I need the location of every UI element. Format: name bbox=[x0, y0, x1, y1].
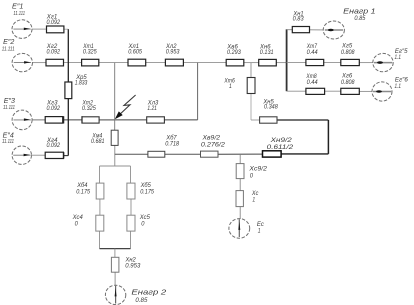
EMF source E3 bbox=[12, 110, 32, 130]
wire mid right bbox=[130, 199, 132, 215]
label Xг2 bbox=[46, 44, 61, 56]
EMF source Eнагр1 bbox=[323, 21, 344, 39]
svg-text:0.83: 0.83 bbox=[293, 16, 305, 22]
resistor Xв6 bbox=[226, 59, 244, 66]
svg-text:0.611/2: 0.611/2 bbox=[267, 145, 294, 151]
wire line y120 a bbox=[251, 119, 260, 121]
wire row3 e bbox=[164, 119, 197, 121]
label Xт8 bbox=[306, 74, 319, 86]
svg-text:1.833: 1.833 bbox=[75, 81, 88, 87]
wire lower line c bbox=[218, 153, 263, 155]
resistor Xн6 bbox=[259, 59, 277, 66]
label Xн9/2 bbox=[267, 138, 294, 151]
resistor Xг6 bbox=[341, 88, 360, 94]
resistor Xб5 bbox=[127, 183, 135, 199]
svg-text:Xв9/2: Xв9/2 bbox=[201, 136, 220, 142]
EMF source Eг6 bbox=[372, 82, 392, 101]
wire riser to row2 bbox=[197, 63, 199, 120]
wire row4 b bbox=[64, 155, 69, 157]
wire row1 a bbox=[32, 28, 47, 30]
wire bus1 lower bbox=[67, 99, 69, 156]
svg-text:0.175: 0.175 bbox=[140, 189, 154, 195]
svg-text:0.85: 0.85 bbox=[135, 298, 148, 304]
resistor Xс4 bbox=[96, 215, 104, 231]
label Eг6 bbox=[395, 78, 409, 90]
svg-text:Eс: Eс bbox=[257, 222, 264, 228]
svg-text:11.111: 11.111 bbox=[3, 105, 15, 111]
wire line y120 b bbox=[277, 119, 328, 121]
label Xг1 bbox=[46, 14, 61, 25]
svg-text:0.348: 0.348 bbox=[264, 105, 278, 111]
label Eнагр1 bbox=[343, 6, 375, 22]
wire branch T6 top bbox=[250, 63, 252, 78]
label Xт6 bbox=[224, 78, 236, 90]
wire split top bbox=[100, 165, 131, 167]
resistor Xн5 bbox=[260, 117, 277, 123]
svg-text:0.092: 0.092 bbox=[47, 106, 61, 112]
label Xб5 bbox=[140, 183, 155, 195]
label Xт2 bbox=[82, 101, 97, 112]
label Xн5 bbox=[262, 99, 278, 110]
resistor Xн1 bbox=[292, 27, 309, 33]
wire row2r c bbox=[359, 62, 373, 64]
label Xб4 bbox=[76, 183, 90, 195]
wire row1r a bbox=[287, 29, 293, 31]
label Xв9/2 bbox=[201, 136, 226, 149]
svg-text:0.953: 0.953 bbox=[166, 50, 180, 56]
label Xм4 bbox=[91, 134, 105, 145]
resistor Xр5 bbox=[65, 82, 72, 99]
svg-text:0.953: 0.953 bbox=[125, 264, 141, 270]
resistor Xл2 bbox=[165, 59, 183, 66]
wire row1r b bbox=[310, 29, 324, 31]
wire row2 b bbox=[64, 62, 82, 64]
wire branch T6 bottom bbox=[250, 94, 252, 121]
svg-text:1.1: 1.1 bbox=[395, 55, 402, 61]
EMF source E2 bbox=[12, 53, 32, 71]
wire chain a bbox=[239, 154, 241, 163]
wire mid left bbox=[99, 199, 101, 215]
wire lower line d bbox=[281, 153, 328, 155]
svg-text:0.325: 0.325 bbox=[83, 50, 97, 56]
svg-text:0.85: 0.85 bbox=[354, 16, 366, 22]
wire row3r b bbox=[325, 90, 341, 92]
svg-text:Xс4: Xс4 bbox=[72, 215, 84, 221]
svg-text:0.092: 0.092 bbox=[47, 143, 61, 149]
wire row2 f bbox=[244, 62, 259, 64]
svg-text:0.44: 0.44 bbox=[307, 80, 319, 86]
label Eс bbox=[257, 222, 264, 235]
wire row2 g bbox=[276, 62, 286, 64]
svg-text:0.808: 0.808 bbox=[341, 80, 355, 86]
wire row3 d bbox=[115, 119, 147, 121]
wire split right bbox=[130, 166, 132, 183]
wire split left bbox=[99, 166, 101, 183]
resistor Xт8 bbox=[306, 88, 325, 94]
resistor Xг4 bbox=[45, 152, 63, 158]
wire join bottom bbox=[100, 248, 131, 250]
label Xл3 bbox=[147, 101, 159, 112]
wire row2r b bbox=[324, 62, 341, 64]
label Xн6 bbox=[259, 45, 274, 57]
wire row2r a bbox=[287, 62, 306, 64]
junction cap right of Xг3 bbox=[63, 116, 65, 123]
svg-text:E″1: E″1 bbox=[12, 4, 24, 11]
label Xв6 bbox=[226, 45, 241, 57]
EMF source Eс bbox=[229, 219, 250, 239]
svg-text:Xг5: Xг5 bbox=[341, 44, 353, 50]
svg-text:Eг″5: Eг″5 bbox=[395, 49, 408, 55]
wire drop to node K bbox=[114, 63, 116, 131]
EMF source E1 bbox=[12, 20, 32, 39]
EMF source Eг5 bbox=[373, 53, 393, 71]
wire row3r c bbox=[359, 90, 372, 92]
label Xн2 bbox=[125, 257, 141, 269]
resistor Xл1 bbox=[128, 59, 146, 66]
svg-text:0.175: 0.175 bbox=[76, 189, 90, 195]
label Xл2 bbox=[165, 44, 180, 56]
wire row3 c bbox=[99, 119, 115, 121]
wire stub to Xн2 bbox=[114, 249, 116, 258]
label Xл1 bbox=[128, 44, 143, 56]
svg-text:11.111: 11.111 bbox=[13, 11, 25, 17]
svg-text:Xб7: Xб7 bbox=[165, 135, 177, 141]
wire lower line b bbox=[165, 153, 201, 155]
wire right loop riser bbox=[327, 120, 329, 154]
svg-text:Eнагр 1: Eнагр 1 bbox=[343, 6, 375, 15]
svg-text:Xн9/2: Xн9/2 bbox=[269, 138, 292, 144]
label Eг5 bbox=[395, 49, 409, 61]
wire Xн2 to Eнагр2 bbox=[114, 272, 116, 285]
wire bus1 upper bbox=[67, 29, 69, 82]
resistor Xт1 bbox=[82, 59, 99, 66]
wire join right bbox=[130, 231, 132, 249]
svg-text:0.092: 0.092 bbox=[47, 20, 61, 26]
wire row2 d bbox=[146, 62, 166, 64]
resistor Xс bbox=[236, 191, 243, 207]
svg-text:0.293: 0.293 bbox=[227, 50, 241, 56]
wire row3 a bbox=[32, 119, 45, 121]
label Xб7 bbox=[165, 135, 179, 147]
resistor Xл3 bbox=[147, 117, 165, 123]
wire chain b bbox=[239, 179, 241, 191]
svg-text:0.092: 0.092 bbox=[47, 50, 61, 56]
svg-text:11.111: 11.111 bbox=[2, 47, 15, 53]
wire join left bbox=[99, 231, 101, 249]
svg-text:Xс5: Xс5 bbox=[139, 215, 151, 221]
svg-text:0.131: 0.131 bbox=[260, 50, 274, 56]
resistor Xс9/2 bbox=[236, 164, 244, 179]
label Xт1 bbox=[82, 44, 97, 56]
wire row2 c bbox=[99, 62, 128, 64]
junction cap right of Xг4 bbox=[63, 152, 65, 158]
svg-text:Xг6: Xг6 bbox=[341, 73, 353, 79]
resistor Xг3 bbox=[45, 117, 63, 124]
resistor Xм4 bbox=[111, 130, 118, 145]
resistor Xг2 bbox=[46, 59, 64, 66]
label Xг4 bbox=[46, 138, 61, 149]
svg-text:Xт8: Xт8 bbox=[306, 74, 318, 80]
short-circuit lightning arrow at node K bbox=[115, 95, 136, 119]
svg-text:0.808: 0.808 bbox=[341, 50, 355, 56]
resistor Xг1 bbox=[47, 26, 64, 33]
svg-text:1: 1 bbox=[258, 229, 261, 235]
resistor Xн9/2 bbox=[263, 151, 282, 157]
svg-text:Eнагр 2: Eнагр 2 bbox=[131, 287, 166, 296]
svg-text:Xн2: Xн2 bbox=[125, 257, 137, 263]
wire row3r a bbox=[287, 90, 306, 92]
resistor Xт2 bbox=[82, 117, 99, 123]
resistor Xн2 bbox=[111, 257, 119, 272]
junction cap left of Xт2 bbox=[81, 116, 83, 123]
EMF source E4 bbox=[12, 146, 31, 164]
resistor Xт7 bbox=[306, 59, 324, 65]
label Xс9/2 bbox=[248, 166, 267, 179]
resistor Xб4 bbox=[96, 183, 104, 199]
wire lower line a bbox=[115, 153, 148, 155]
svg-text:0.681: 0.681 bbox=[91, 139, 105, 145]
svg-text:0.44: 0.44 bbox=[307, 50, 319, 56]
label Xс bbox=[251, 191, 258, 204]
svg-text:0.276/2: 0.276/2 bbox=[201, 143, 226, 149]
resistor Xт6 bbox=[247, 78, 255, 94]
svg-text:Xб5: Xб5 bbox=[140, 183, 152, 189]
label Xг3 bbox=[46, 101, 61, 112]
resistor Xс5 bbox=[127, 215, 135, 231]
resistor Xг5 bbox=[341, 59, 360, 65]
wire node K to split bbox=[114, 145, 116, 166]
label E2 bbox=[2, 39, 15, 53]
label Xс4 bbox=[72, 215, 84, 228]
EMF source Eнагр2 bbox=[105, 285, 125, 304]
label E1 bbox=[12, 4, 25, 17]
resistor Xв9/2 bbox=[201, 151, 219, 157]
svg-text:0.605: 0.605 bbox=[128, 50, 142, 56]
svg-text:1.21: 1.21 bbox=[147, 106, 157, 112]
label Xт7 bbox=[306, 44, 318, 56]
label Xг6 bbox=[341, 73, 355, 85]
wire row2 a bbox=[33, 62, 47, 64]
svg-text:Xб4: Xб4 bbox=[76, 183, 88, 189]
svg-text:Xс9/2: Xс9/2 bbox=[248, 166, 267, 172]
label Xс5 bbox=[139, 215, 151, 228]
svg-text:Eг″6: Eг″6 bbox=[395, 78, 409, 84]
svg-text:11.111: 11.111 bbox=[2, 139, 14, 145]
label E3 bbox=[3, 98, 15, 111]
svg-text:1.1: 1.1 bbox=[395, 84, 402, 90]
label Xг5 bbox=[341, 44, 355, 56]
wire row3 b bbox=[63, 119, 82, 121]
svg-text:0.718: 0.718 bbox=[165, 142, 179, 148]
svg-text:1: 1 bbox=[229, 84, 232, 90]
wire chain c bbox=[239, 207, 241, 219]
label Eнагр2 bbox=[131, 287, 166, 304]
resistor Xб7 bbox=[148, 151, 165, 157]
svg-text:1: 1 bbox=[252, 198, 255, 204]
wire bus2 bbox=[286, 29, 288, 91]
label Xн1 bbox=[292, 12, 304, 23]
wire row1 b bbox=[64, 28, 68, 30]
wire row2 e bbox=[183, 62, 226, 64]
label E4 bbox=[2, 133, 14, 146]
svg-text:Xс: Xс bbox=[251, 191, 258, 197]
label Xр5 bbox=[75, 75, 88, 87]
svg-text:E″2: E″2 bbox=[3, 39, 14, 46]
wire row4 a bbox=[31, 154, 45, 156]
svg-text:0.325: 0.325 bbox=[82, 106, 96, 112]
